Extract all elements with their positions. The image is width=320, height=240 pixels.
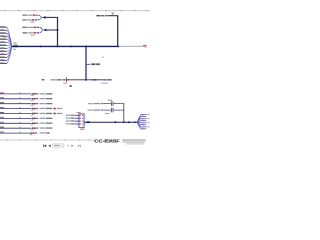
nav prev-page button [48,144,50,147]
nav first-page button [43,144,46,147]
signal row 5 wire [0,113,32,115]
chain label text [51,79,62,80]
wire group A [45,16,58,18]
signal row 7 mid tick [19,122,22,124]
signal row 4 wire [0,108,32,110]
signal row 6 mid tick [19,117,22,119]
wire: caps bracket vertical [123,103,125,122]
net label row A2 [22,19,37,22]
signal row 5 left net label [0,112,4,113]
signal row 9 wire [0,132,31,134]
junction dots on main net [40,45,120,47]
signal row 4 net name text [40,108,63,110]
U2 input wire 4 [75,123,79,125]
entry arrow group B [43,29,47,32]
signal row 7 left net label [0,122,4,123]
resistor R1 in chain [92,79,98,81]
ferrite bead FB1 [13,43,18,50]
U2 input wire 3 [75,120,79,122]
U2 input label 1 [66,115,75,116]
signal row 6 series resistor [31,118,39,121]
U2 input wire 2 [75,117,79,119]
U2 designator above [77,112,81,113]
signal row 8 net name text [40,127,53,128]
junction dot group B [57,29,59,31]
U2 designator [80,129,84,130]
cap row 1 wire right [113,103,124,105]
cap row 1 label [88,103,103,104]
wire: light continuation to right edge [118,45,144,47]
harness merge arcs group A [37,15,41,20]
signal row 5 net name text [40,113,63,115]
U2 input label 4 [66,123,75,124]
signal row 1 left net label [0,92,4,93]
signal row 5 series resistor [31,113,39,116]
C3 value text [105,113,110,114]
net label stub on vertical [86,63,100,65]
J1 pin highlight speck [4,37,6,38]
connector J1 (left edge connector, 13 pins) [0,26,7,63]
heavy blob near U2 output [87,121,90,123]
signal row 6 net name text [40,118,53,119]
signal row 2 series resistor [31,98,39,101]
signal row 3 mid tick [19,102,22,104]
signal row 1 series resistor [31,93,39,96]
nav page box [53,144,64,147]
wire group B [46,29,58,31]
net label row B1 [22,27,39,28]
cap row 2 wire left [103,109,111,111]
net label row A1 [22,14,37,15]
signal row 8 left net label [0,127,4,128]
chain start speck [42,79,45,80]
signal row 9 mid tick [19,132,22,134]
cap row 2 label [87,109,103,110]
nav last-page button [78,145,81,148]
wire top-right [108,15,118,17]
capacitor C3 [111,108,113,113]
connector J2 pins [141,114,150,129]
signal row 3 net name text [40,103,53,104]
sheet top border [0,10,150,11]
C2 value text [108,100,112,101]
filter U2 box [79,114,84,128]
nav next-page button [71,145,73,148]
sheet bottom border [0,139,94,142]
wire: vertical main net to RC chain [85,46,87,79]
signal row 8 wire [0,127,32,129]
pin tick top-right [111,13,114,16]
signal row 9 net name text [40,132,50,133]
wire: bottom output net [84,121,137,123]
faint speck right-middle [102,57,104,58]
signal row 1 net name text [40,93,53,94]
signal row 9 left net label [0,132,4,133]
title block info text [122,139,146,144]
signal row 4 series resistor [31,108,39,111]
connector J1 harness fan arcs [7,27,12,63]
off-sheet connector (red, right end) [143,45,147,48]
chain end net label [101,79,112,84]
cap row 1 wire left [103,103,111,105]
wire chain [69,79,104,81]
signal row 2 left net label [0,97,4,98]
U2 input wire 1 [75,114,79,116]
U2 input label 3 [66,120,75,121]
junction dot chain [85,79,87,81]
net label row B2 [22,32,39,36]
capacitor C2 [111,101,113,106]
U2 input label 2 [66,118,75,119]
signal row 2 net name text [40,98,53,99]
signal row 7 series resistor [31,123,39,126]
signal row 5 mid tick [19,112,22,114]
capacitor C1 in chain [63,77,69,83]
wire: vertical top-right to main net [117,16,119,47]
signal row 6 wire [0,117,32,119]
signal row 4 mid tick [19,107,22,109]
entry arrow group A [42,16,46,19]
signal row 3 wire [0,103,32,105]
signal row 2 wire [0,98,32,100]
signal row 2 mid tick [19,97,22,99]
junction dots bottom net [114,121,129,123]
title block logo text [94,138,120,143]
signal row 1 mid tick [19,92,22,94]
harness merge arcs group B [40,27,43,33]
wire: vertical group A to main net [57,17,59,46]
net label top-right [96,15,107,17]
ground speck below chain [69,85,71,87]
signal row 7 wire [0,122,32,124]
signal row 7 net name text [40,123,53,124]
signal row 3 left net label [0,102,4,103]
wire: main horizontal net [12,45,119,47]
signal row 9 series resistor [30,132,37,135]
cap row 2 wire right [113,109,124,111]
signal row 6 left net label [0,117,4,118]
connector J2 fan arcs [137,115,141,129]
signal row 8 mid tick [19,127,22,129]
signal row 4 left net label [0,107,4,108]
nav separator dash [67,144,69,147]
connector J2 entry arrow [134,121,137,123]
signal row 1 wire [0,93,32,95]
signal row 3 series resistor [31,103,39,106]
signal row 8 series resistor [31,127,39,130]
